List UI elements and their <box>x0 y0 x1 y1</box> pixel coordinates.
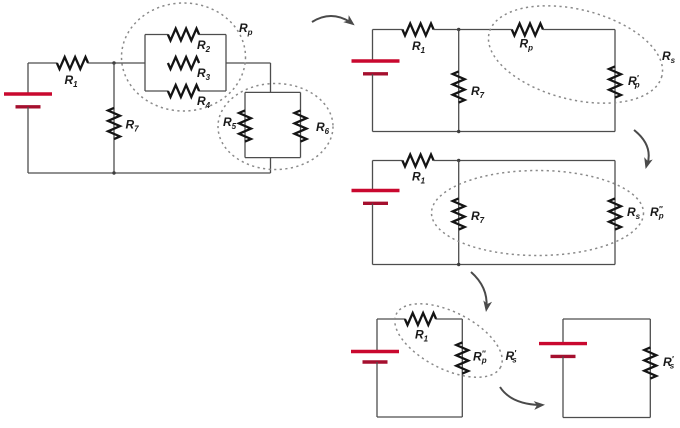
wire C3 left bottom <box>372 204 374 265</box>
battery C5 <box>539 344 587 357</box>
wire C3 R7 branch <box>458 161 460 265</box>
wire C1 R2 branch right <box>199 34 226 36</box>
wire C2 Rp to right <box>543 29 615 31</box>
resistor R3 <box>168 57 199 69</box>
wire C5 top <box>563 318 650 320</box>
wire C1 left bottom <box>27 107 29 173</box>
node C1 bottom junction <box>112 171 115 174</box>
wire C4 bottom <box>377 416 462 418</box>
resistor R1 (circuit 1) <box>57 57 88 69</box>
wire C3 right rail <box>614 161 616 265</box>
resistor Rs (circuit 3) <box>609 198 621 229</box>
svg-text:R′s: R′s <box>663 355 675 371</box>
wire C1 stem to R5R6 block <box>270 63 272 92</box>
wire C3 bottom <box>373 264 616 266</box>
wire C4 left top <box>376 319 378 352</box>
arrow circuit4 to circuit5 <box>500 387 545 410</box>
svg-text:R″p: R″p <box>650 205 664 221</box>
wire C1 R2 branch left <box>145 34 168 36</box>
dotted ellipse around R1 and R''p <box>383 289 513 393</box>
wire C5 left top <box>562 319 564 344</box>
wire C4 top-left segment <box>377 318 405 320</box>
resistor R2 <box>168 29 199 41</box>
wire C1 R1 to parallel block <box>88 62 145 64</box>
wire C1 R5R6 top bar <box>245 91 301 93</box>
resistor R6 <box>295 110 307 141</box>
node C3 bottom junction <box>457 263 460 266</box>
battery C2 <box>352 61 400 74</box>
resistor R's (circuit 5) <box>644 347 656 378</box>
wire C1 R5 branch <box>244 92 246 157</box>
arrow circuit3 to circuit4 <box>471 272 492 313</box>
resistor R4 <box>168 85 199 97</box>
resistor R1 (circuit 2) <box>402 24 433 36</box>
wire C5 left bottom <box>562 356 564 417</box>
wire C1 parallel block left rail <box>144 35 146 92</box>
wire C4 top-right segment <box>436 318 462 320</box>
wire C1 bottom <box>28 172 271 174</box>
resistor R7 (circuit 2) <box>453 71 465 102</box>
resistor R'p (circuit 2) <box>609 66 621 97</box>
wire C2 R1 to Rp <box>434 29 512 31</box>
wire C1 stem from R5R6 block <box>270 158 272 173</box>
svg-text:R″p: R″p <box>473 350 487 366</box>
wire C1 R6 branch <box>300 92 302 157</box>
wire C4 left bottom <box>376 362 378 417</box>
wire C1 R4 branch left <box>145 90 168 92</box>
wire C1 R5R6 bottom bar <box>245 157 301 159</box>
wire C1 R4 branch right <box>199 90 226 92</box>
arrow circuit1 to circuit2 <box>312 15 357 29</box>
node C3 top junction <box>457 159 460 162</box>
resistor R''p (circuit 4) <box>456 342 468 373</box>
battery C4 <box>351 352 399 363</box>
dotted ellipse around R5 R6 <box>218 84 333 170</box>
svg-text:R′p: R′p <box>628 74 640 90</box>
node C2 top junction <box>457 28 460 31</box>
wire C4 right rail <box>461 319 463 417</box>
wire C3 top <box>434 160 616 162</box>
resistor R1 (circuit 3) <box>402 155 433 167</box>
battery C3 <box>352 191 400 204</box>
wire C1 top-left segment <box>28 62 57 64</box>
dotted ellipse around Rp and R'p <box>478 0 672 120</box>
svg-text:R′s: R′s <box>506 349 518 365</box>
resistor R7 (circuit 1) <box>108 108 120 139</box>
wire C2 right rail <box>614 30 616 132</box>
wire C3 top-left segment <box>373 160 403 162</box>
wire C1 block to R5R6 branch <box>226 62 271 64</box>
wire C2 top-left segment <box>373 29 403 31</box>
wire C2 left top <box>372 30 374 62</box>
resistor R7 (circuit 3) <box>453 198 465 229</box>
wire C1 left top <box>27 63 29 94</box>
wire C2 bottom <box>373 131 616 133</box>
wire C1 R7 branch <box>113 63 115 173</box>
wire C5 bottom <box>563 417 650 419</box>
dotted ellipse around R7 and Rs <box>432 171 644 256</box>
wire C2 R7 branch <box>458 30 460 132</box>
wire C3 left top <box>372 161 374 191</box>
resistor Rp (circuit 2) <box>512 24 543 36</box>
wire C5 right rail <box>649 319 651 418</box>
battery C1 <box>4 94 52 107</box>
resistor R5 <box>239 110 251 141</box>
node C2 bottom junction <box>457 130 460 133</box>
wire C2 left bottom <box>372 74 374 132</box>
node C1 top junction <box>112 61 115 64</box>
resistor R1 (circuit 4) <box>405 313 436 325</box>
arrow circuit2 to circuit3 <box>634 130 653 170</box>
wire C1 parallel block right rail <box>225 35 227 92</box>
dotted ellipse around R2 R3 R4 <box>122 3 246 111</box>
